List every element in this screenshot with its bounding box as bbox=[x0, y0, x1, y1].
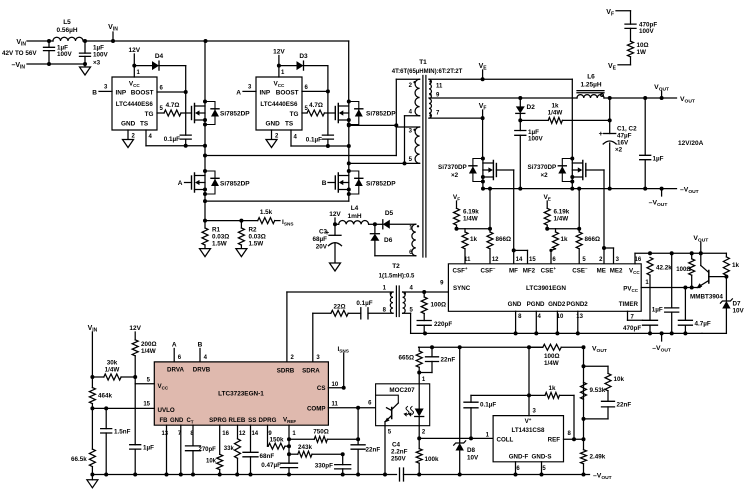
svg-text:1.25µH: 1.25µH bbox=[580, 82, 601, 89]
svg-text:11: 11 bbox=[436, 83, 443, 89]
capacitor 220pF sync bbox=[417, 321, 431, 326]
core T2 bbox=[395, 286, 397, 317]
wire U4 PVCC pin1 bbox=[641, 287, 700, 289]
diode D7 zener bbox=[725, 277, 727, 301]
wire M4 source bbox=[348, 194, 350, 201]
svg-text:BOOST: BOOST bbox=[276, 90, 299, 97]
wire DRVA stub bbox=[173, 349, 175, 362]
svg-text:SS: SS bbox=[248, 417, 256, 424]
wire T1 primary bottom drop bbox=[404, 116, 406, 164]
resistor 1k left bbox=[464, 229, 466, 232]
svg-text:Si7852DP: Si7852DP bbox=[366, 111, 396, 118]
resistor 150k bbox=[268, 443, 285, 449]
svg-text:B: B bbox=[92, 90, 97, 97]
svg-text:30k: 30k bbox=[107, 360, 118, 367]
wire U3 pin2 gnd bbox=[271, 130, 273, 140]
wire T2 pin1 to SDRB bbox=[287, 291, 393, 293]
capacitor 22nF fb bbox=[431, 347, 433, 357]
svg-text:L6: L6 bbox=[587, 74, 595, 81]
wire T2 pin5 to gnd bbox=[403, 312, 411, 314]
svg-text:1µF: 1µF bbox=[653, 156, 664, 163]
wire M4 gate B bbox=[328, 182, 335, 184]
svg-text:ME: ME bbox=[597, 267, 606, 274]
resistor 2.49k bbox=[583, 439, 585, 449]
capacitor 1uF pvcc bbox=[671, 253, 673, 308]
wire L4 to D6 node bbox=[369, 223, 375, 225]
wire T1 primary top drop bbox=[395, 79, 397, 155]
wire phase A trunk bbox=[204, 146, 206, 171]
svg-text:22nF: 22nF bbox=[617, 402, 632, 409]
node VOUT fb bbox=[582, 345, 586, 349]
resistor 1k 1/4W sec bbox=[520, 119, 548, 121]
wire U2 BOOST pin6 bbox=[157, 91, 186, 93]
IC U4 LTC3901EGN box bbox=[448, 264, 641, 312]
resistor 30k bbox=[104, 374, 121, 380]
svg-text:68µF: 68µF bbox=[313, 236, 328, 243]
svg-text:Si7852DP: Si7852DP bbox=[366, 181, 396, 188]
wire DRVB stub bbox=[199, 349, 201, 362]
node VIN label bbox=[112, 32, 114, 41]
svg-text:C4: C4 bbox=[392, 442, 401, 449]
svg-text:1/4W: 1/4W bbox=[548, 110, 563, 117]
svg-text:PGND2: PGND2 bbox=[566, 301, 588, 308]
wire VREF stub bbox=[288, 425, 290, 463]
svg-text:0.1µF: 0.1µF bbox=[306, 137, 322, 144]
svg-text:11: 11 bbox=[464, 257, 471, 263]
svg-text:22nF: 22nF bbox=[366, 447, 381, 454]
svg-text:12V: 12V bbox=[129, 325, 141, 332]
wire sense node right bbox=[547, 228, 579, 230]
svg-text:COMP: COMP bbox=[307, 406, 326, 413]
svg-text:1µF: 1µF bbox=[143, 445, 154, 452]
svg-text:66.5k: 66.5k bbox=[71, 456, 87, 463]
ground R2 bbox=[236, 249, 247, 257]
svg-text:10Ω: 10Ω bbox=[637, 42, 649, 49]
svg-text:D3: D3 bbox=[299, 53, 308, 60]
svg-text:42.2k: 42.2k bbox=[656, 265, 672, 272]
resistor 100ohm pvcc bbox=[691, 253, 693, 258]
svg-text:16: 16 bbox=[222, 431, 229, 437]
svg-text:100Ω: 100Ω bbox=[431, 302, 447, 309]
node VE T1 bbox=[482, 70, 484, 79]
svg-text:GND: GND bbox=[170, 418, 184, 424]
winding T1 primary bottom bbox=[415, 127, 420, 163]
svg-text:LTC3723EGN-1: LTC3723EGN-1 bbox=[218, 391, 264, 398]
svg-text:0.1µF: 0.1µF bbox=[480, 402, 496, 409]
svg-text:ME2: ME2 bbox=[610, 267, 623, 274]
svg-text:MF2: MF2 bbox=[523, 267, 536, 274]
wire COMP pin11 bbox=[328, 407, 386, 409]
svg-text:D6: D6 bbox=[384, 237, 393, 244]
svg-text:0.47µF: 0.47µF bbox=[261, 462, 281, 469]
svg-text:T2: T2 bbox=[392, 263, 400, 270]
svg-text:×2: ×2 bbox=[541, 172, 549, 179]
wire gnd rail bbox=[411, 332, 702, 334]
svg-text:12V/20A: 12V/20A bbox=[678, 140, 704, 147]
diode D6 bbox=[374, 224, 376, 233]
svg-text:A: A bbox=[236, 90, 241, 97]
inductor L6 1.25uH bbox=[577, 95, 604, 98]
svg-text:4.7Ω: 4.7Ω bbox=[166, 102, 180, 109]
svg-text:100V: 100V bbox=[93, 52, 109, 59]
svg-text:15: 15 bbox=[143, 402, 150, 408]
svg-text:13: 13 bbox=[161, 431, 168, 437]
wire FB stub bbox=[166, 425, 168, 474]
svg-text:0.1µF: 0.1µF bbox=[356, 300, 372, 307]
wire U2 TS pin4 bbox=[145, 130, 147, 146]
svg-text:COLL: COLL bbox=[497, 436, 514, 443]
diode D8 zener bbox=[459, 347, 461, 443]
svg-text:GND2: GND2 bbox=[548, 301, 566, 308]
wire M2 source to T1 top bbox=[349, 124, 397, 126]
IC U2 LTC4440ES6 box bbox=[112, 77, 157, 130]
svg-text:15: 15 bbox=[529, 257, 536, 263]
wire fb node line bbox=[419, 346, 543, 348]
resistor 10k fb bbox=[584, 365, 609, 367]
capacitor boost1 0.1uF bbox=[180, 135, 191, 139]
svg-text:1/4W: 1/4W bbox=[554, 216, 569, 223]
resistor R2 0.03ohm bbox=[240, 221, 242, 228]
wire VF vertical bbox=[482, 118, 484, 158]
wire VIN rail bbox=[85, 40, 349, 42]
svg-text:+: + bbox=[599, 129, 604, 138]
resistor 866ohm left bbox=[489, 189, 491, 232]
wire VE line bbox=[429, 78, 572, 80]
wire U3 input A pin3 bbox=[243, 90, 256, 92]
wire 12V to U3 pin1 bbox=[278, 56, 280, 78]
capacitor 1uF out bbox=[644, 98, 646, 155]
svg-text:0.03Ω: 0.03Ω bbox=[249, 234, 266, 241]
winding T1 secondary bbox=[429, 79, 431, 118]
svg-text:DPRG: DPRG bbox=[259, 417, 277, 424]
wire U2 TG pin5 bbox=[157, 112, 164, 114]
wire MF MF2 jog bbox=[514, 249, 528, 251]
svg-text:1k: 1k bbox=[561, 236, 569, 243]
transistor M1 Si7852DP upper-left bbox=[191, 107, 193, 120]
svg-text:SDRA: SDRA bbox=[302, 368, 320, 375]
svg-text:1µF: 1µF bbox=[652, 307, 663, 314]
svg-text:1/4W: 1/4W bbox=[141, 348, 156, 355]
svg-text:R1: R1 bbox=[212, 227, 221, 234]
capacitor 0.47uF bbox=[281, 463, 298, 467]
capacitor 22nF comp bbox=[357, 408, 359, 445]
capacitor 4.7uF pvcc bbox=[684, 288, 686, 321]
IC U5 MOC207 box bbox=[376, 384, 430, 426]
transistor M6 Si7370DP right bbox=[585, 164, 587, 177]
svg-text:SPRG: SPRG bbox=[209, 417, 227, 424]
wire Q1 base bbox=[709, 276, 727, 278]
wire MOC pin2 to COLL bbox=[418, 426, 420, 439]
svg-text:T1: T1 bbox=[419, 59, 427, 66]
svg-text:PGND: PGND bbox=[527, 301, 545, 308]
svg-text:FB: FB bbox=[160, 418, 169, 424]
svg-text:10V: 10V bbox=[733, 308, 745, 315]
capacitor C_in2 1uF 100V x3 bbox=[84, 41, 86, 53]
svg-text:0.03Ω: 0.03Ω bbox=[212, 234, 229, 241]
wire UVLO pin15 bbox=[92, 407, 154, 409]
svg-text:42V TO 56V: 42V TO 56V bbox=[2, 50, 37, 57]
svg-text:D2: D2 bbox=[527, 104, 536, 111]
wire SS stub bbox=[250, 425, 252, 452]
wire phase A to primary bbox=[205, 155, 396, 157]
svg-text:BOOST: BOOST bbox=[131, 90, 154, 97]
svg-text:100Ω: 100Ω bbox=[544, 353, 560, 360]
node -VOUT stub bbox=[661, 189, 663, 196]
svg-text:CS: CS bbox=[317, 385, 326, 392]
svg-text:TS: TS bbox=[285, 121, 294, 128]
wire VF line bbox=[429, 117, 483, 119]
wire U6 gnd stubs bbox=[515, 462, 517, 475]
svg-text:250V: 250V bbox=[391, 456, 407, 463]
wire CS pin10 bbox=[328, 387, 343, 389]
resistor 1k bias bbox=[725, 253, 727, 257]
winding T1 primary top bbox=[415, 79, 420, 116]
diode D3 bbox=[279, 65, 297, 67]
svg-text:100V: 100V bbox=[639, 28, 655, 35]
resistor 100ohm fb bbox=[529, 346, 543, 348]
opto phototransistor bbox=[376, 395, 399, 403]
inductor L4 1mH bbox=[339, 221, 369, 225]
svg-text:1.5k: 1.5k bbox=[260, 209, 273, 216]
capacitor 68nF bbox=[243, 452, 258, 457]
svg-text:4T:6T(65µHMIN):6T:2T:2T: 4T:6T(65µHMIN):6T:2T:2T bbox=[392, 69, 463, 75]
svg-text:330pF: 330pF bbox=[315, 463, 333, 470]
wire U6 Vplus pin3 bbox=[528, 347, 530, 415]
wire U4 TIMER pin7 bbox=[627, 311, 629, 320]
resistor 464k bbox=[91, 377, 93, 388]
node 12V aux bbox=[334, 218, 336, 224]
wire ME ME2 jog bbox=[604, 247, 614, 249]
svg-text:200Ω: 200Ω bbox=[141, 341, 157, 348]
svg-text:12V: 12V bbox=[129, 47, 141, 54]
resistor 6.19k left bbox=[454, 208, 460, 225]
capacitor C1 C2 47uF bbox=[604, 133, 616, 135]
svg-text:LT1431CS8: LT1431CS8 bbox=[512, 427, 545, 434]
resistor 6.19k right bbox=[544, 208, 550, 225]
svg-text:1.5W: 1.5W bbox=[212, 241, 227, 248]
capacitor boost2 0.1uF bbox=[322, 135, 333, 139]
svg-text:TG: TG bbox=[145, 111, 154, 118]
wire D3 cathode to boost cap bbox=[327, 66, 329, 136]
svg-text:866Ω: 866Ω bbox=[585, 236, 601, 243]
svg-text:1/4W: 1/4W bbox=[105, 367, 120, 374]
wire U4 gnd stubs bbox=[515, 311, 517, 333]
svg-text:14: 14 bbox=[251, 431, 258, 437]
svg-text:TIMER: TIMER bbox=[619, 301, 639, 308]
capacitor 470pF 100V snubber bbox=[630, 11, 632, 24]
svg-text:D5: D5 bbox=[385, 210, 394, 217]
resistor 9.53k bbox=[581, 382, 587, 399]
svg-text:CT: CT bbox=[187, 418, 194, 425]
svg-text:MOC207: MOC207 bbox=[389, 387, 415, 394]
wire D6 anode to T1 pin6 bbox=[375, 255, 416, 257]
svg-text:DRVB: DRVB bbox=[193, 367, 211, 374]
capacitor C3 68uF 20V bbox=[334, 224, 336, 235]
svg-text:10: 10 bbox=[332, 382, 339, 388]
resistor 10ohm 1W snubber bbox=[628, 41, 634, 57]
svg-text:GND-F: GND-F bbox=[509, 454, 529, 461]
wire TS rail A bbox=[146, 145, 205, 147]
transistor Q1 MMBT3904 bbox=[708, 271, 710, 284]
svg-text:0.1µF: 0.1µF bbox=[164, 136, 180, 143]
svg-text:220pF: 220pF bbox=[434, 321, 452, 328]
transistor M2 Si7852DP upper-right bbox=[334, 107, 336, 120]
wire T2 pin4 to SYNC bbox=[403, 291, 425, 293]
core T1 bbox=[422, 76, 424, 258]
resistor 22ohm bbox=[331, 310, 348, 316]
resistor Rg1 4.7ohm bbox=[164, 110, 181, 116]
svg-text:+: + bbox=[325, 230, 329, 237]
IC U1 LTC3723EGN-1 box bbox=[154, 362, 328, 425]
resistor 243k bbox=[289, 453, 298, 455]
svg-text:RLEB: RLEB bbox=[229, 417, 246, 424]
svg-text:B: B bbox=[198, 342, 203, 349]
capacitor 0.1uF fb bbox=[470, 408, 472, 439]
svg-text:20V: 20V bbox=[316, 244, 328, 251]
capacitor 22nF fb2 bbox=[607, 391, 609, 402]
wire -VOUT rail bbox=[483, 188, 677, 190]
svg-text:2.2nF: 2.2nF bbox=[391, 449, 408, 456]
svg-text:L4: L4 bbox=[351, 205, 359, 212]
svg-text:SYNC: SYNC bbox=[453, 285, 471, 292]
svg-text:22nF: 22nF bbox=[441, 357, 456, 364]
ground U3 bbox=[266, 140, 277, 148]
svg-text:470pF: 470pF bbox=[623, 325, 641, 332]
resistor R1 0.03ohm bbox=[202, 228, 208, 245]
resistor 33k bbox=[235, 439, 241, 459]
wire Q1 collector to VOUT bbox=[700, 253, 702, 265]
wire bottom rail left bbox=[92, 474, 396, 476]
resistor R3 1.5k bbox=[258, 218, 275, 224]
wire C1C2 branch top bbox=[609, 98, 611, 134]
wire -VIN extension bbox=[49, 63, 85, 65]
resistor 42.2k timer bbox=[647, 257, 653, 275]
wire U3 TS pin4 bbox=[290, 130, 292, 146]
ground R1 bbox=[200, 249, 211, 257]
svg-text:1µF: 1µF bbox=[93, 45, 104, 52]
wire M5 gate to MF bbox=[496, 169, 513, 171]
node VF T1 bbox=[482, 110, 484, 118]
resistor 1k fb bbox=[529, 394, 545, 396]
svg-text:12V: 12V bbox=[273, 49, 285, 56]
svg-text:12: 12 bbox=[239, 431, 246, 437]
ground C3 bbox=[330, 263, 341, 271]
wire gnd rail ext bbox=[702, 332, 726, 334]
inductor L5 bbox=[53, 37, 83, 41]
svg-text:6.19k: 6.19k bbox=[554, 209, 570, 216]
svg-text:12V: 12V bbox=[329, 211, 341, 218]
wire D4 cathode to boost cap bbox=[185, 66, 187, 136]
svg-text:1k: 1k bbox=[732, 262, 740, 269]
svg-text:GND: GND bbox=[266, 121, 281, 128]
svg-text:47µF: 47µF bbox=[617, 133, 632, 140]
svg-text:1(1.5mH):0.5: 1(1.5mH):0.5 bbox=[379, 274, 415, 280]
svg-text:150k: 150k bbox=[269, 437, 284, 444]
svg-text:TG: TG bbox=[290, 111, 299, 118]
node -VIN input bbox=[27, 63, 49, 65]
wire bottom rail right bbox=[404, 474, 590, 476]
transistor M3 Si7852DP lower-left bbox=[191, 176, 193, 189]
svg-text:665Ω: 665Ω bbox=[398, 355, 414, 362]
wire U4 VCC pin16 bbox=[634, 253, 636, 263]
capacitor C_in1 1uF 100V bbox=[48, 41, 50, 47]
svg-text:D8: D8 bbox=[467, 447, 476, 454]
svg-text:33k: 33k bbox=[224, 446, 235, 452]
wire secondary tap to L6 bbox=[429, 97, 577, 99]
svg-text:DRVA: DRVA bbox=[167, 367, 184, 374]
svg-text:100k: 100k bbox=[425, 456, 440, 463]
wire VE vertical bbox=[571, 79, 573, 158]
wire VCC rail right bbox=[635, 252, 726, 254]
svg-text:D7: D7 bbox=[733, 301, 742, 308]
svg-text:14: 14 bbox=[516, 257, 523, 263]
svg-text:LTC3901EGN: LTC3901EGN bbox=[526, 285, 566, 292]
resistor 200ohm bbox=[132, 340, 138, 356]
resistor 100ohm sync bbox=[423, 292, 425, 297]
wire phase B to primary bbox=[349, 162, 405, 164]
svg-text:750Ω: 750Ω bbox=[313, 429, 329, 436]
svg-text:10V: 10V bbox=[467, 455, 479, 462]
wire TS rail B bbox=[291, 145, 349, 147]
wire U2 input B pin3 bbox=[99, 90, 112, 92]
wire DPRG stub bbox=[267, 425, 269, 446]
svg-text:MMBT3904: MMBT3904 bbox=[690, 294, 723, 301]
resistor Rg2 4.7ohm bbox=[307, 110, 324, 116]
diode D5 bbox=[375, 223, 383, 225]
capacitor 470pF timer bbox=[643, 320, 658, 325]
resistor 66.5k bbox=[89, 449, 95, 467]
svg-text:R2: R2 bbox=[249, 227, 258, 234]
svg-text:×3: ×3 bbox=[93, 60, 101, 67]
svg-text:16V: 16V bbox=[617, 140, 629, 147]
svg-text:464k: 464k bbox=[98, 393, 113, 400]
svg-text:Si7852DP: Si7852DP bbox=[220, 111, 250, 118]
svg-text:866Ω: 866Ω bbox=[496, 236, 512, 243]
wire VCC pin5 bbox=[134, 377, 136, 384]
svg-text:11: 11 bbox=[332, 402, 339, 408]
svg-text:12: 12 bbox=[492, 257, 499, 263]
svg-text:D4: D4 bbox=[155, 53, 164, 60]
wire source rail bbox=[205, 200, 349, 202]
svg-text:1/4W: 1/4W bbox=[463, 216, 478, 223]
svg-text:MF: MF bbox=[509, 267, 518, 274]
svg-text:LTC4440ES6: LTC4440ES6 bbox=[260, 101, 298, 108]
wire sense node left bbox=[457, 228, 491, 230]
wire 12V to U2 pin1 bbox=[133, 54, 135, 77]
wire U3 BOOST pin6 bbox=[302, 90, 328, 92]
wire M5 source bbox=[482, 182, 484, 189]
wire VOUT rail bbox=[604, 97, 677, 99]
transistor M5 Si7370DP left bbox=[495, 164, 497, 177]
IC U6 LT1431CS8 box bbox=[493, 416, 563, 462]
svg-text:100V: 100V bbox=[528, 136, 544, 143]
wire M2 source to TS rail bbox=[348, 125, 350, 147]
capacitor 1.5nF bbox=[105, 408, 107, 428]
wire M1 drain to VIN bbox=[204, 41, 206, 102]
resistor 866ohm right bbox=[578, 189, 580, 232]
opto arrows bbox=[406, 407, 409, 415]
svg-text:C1, C2: C1, C2 bbox=[617, 126, 637, 133]
ground input bbox=[84, 64, 86, 67]
ground U2 bbox=[123, 140, 134, 148]
svg-text:6.19k: 6.19k bbox=[463, 209, 479, 216]
capacitor 270pF bbox=[186, 446, 201, 451]
capacitor 330pF bbox=[342, 454, 344, 464]
svg-text:1k: 1k bbox=[548, 385, 556, 392]
svg-text:GND: GND bbox=[121, 121, 136, 128]
svg-text:L5: L5 bbox=[63, 19, 71, 26]
wire MOC pin5 to rail bbox=[384, 426, 386, 475]
